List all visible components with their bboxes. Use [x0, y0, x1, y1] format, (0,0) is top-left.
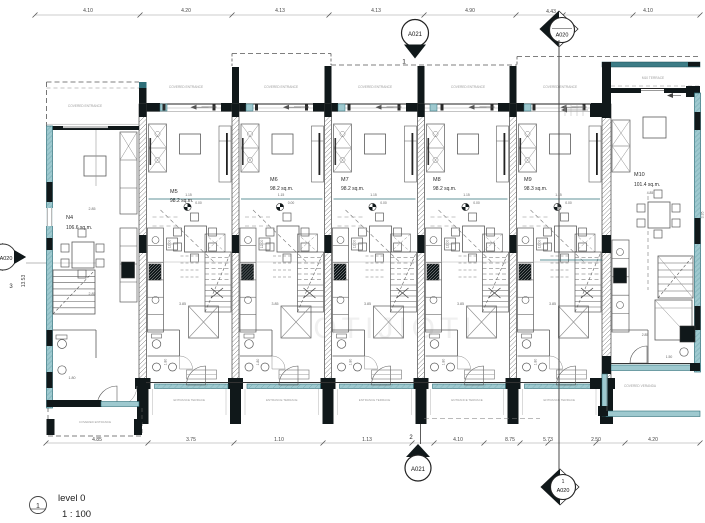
svg-text:1.15: 1.15 [463, 193, 470, 197]
svg-text:12.00: 12.00 [538, 240, 542, 249]
svg-text:2.85: 2.85 [642, 333, 649, 337]
unit M10 [416, 62, 705, 417]
party wall pillars at facade [139, 62, 611, 104]
svg-text:M7: M7 [341, 177, 349, 183]
svg-text:1.13: 1.13 [362, 437, 372, 443]
svg-text:COVERED ENTRANCE: COVERED ENTRANCE [451, 85, 485, 89]
svg-text:1.15: 1.15 [278, 193, 285, 197]
svg-text:COVERED ENTRANCE: COVERED ENTRANCE [358, 85, 392, 89]
svg-text:M9: M9 [524, 177, 532, 183]
svg-text:1.80: 1.80 [164, 359, 168, 366]
svg-text:4.85: 4.85 [92, 437, 102, 443]
svg-text:1.10: 1.10 [274, 437, 284, 443]
svg-text:4.43: 4.43 [546, 9, 556, 15]
svg-text:A021: A021 [411, 467, 426, 473]
dashed terrace edge [424, 418, 540, 420]
svg-text:OTIJIOTI: OTIJIOTI [313, 312, 476, 345]
svg-text:98.2 sq.m.: 98.2 sq.m. [433, 186, 456, 192]
svg-text:COVERED ENTRANCE: COVERED ENTRANCE [169, 85, 203, 89]
svg-text:12.00: 12.00 [168, 240, 172, 249]
left dimension 13.53 [21, 275, 27, 288]
svg-text:M5: M5 [170, 189, 178, 195]
svg-text:COVERED ENTRANCE: COVERED ENTRANCE [543, 85, 577, 89]
unit M9 [503, 104, 602, 415]
svg-text:2.85: 2.85 [89, 207, 96, 211]
svg-text:3.85: 3.85 [549, 302, 556, 306]
unit M4 [0, 82, 337, 436]
section marker A021 bottom [405, 435, 431, 481]
bottom dimension line [44, 437, 703, 446]
svg-text:98.2 sq.m.: 98.2 sq.m. [170, 198, 193, 204]
svg-text:98.2 sq.m.: 98.2 sq.m. [270, 186, 293, 192]
svg-text:M10 TERRACE: M10 TERRACE [642, 76, 664, 80]
svg-text:1.80: 1.80 [69, 376, 76, 380]
svg-text:1.80: 1.80 [256, 359, 260, 366]
title level 0 scale 1:100 [30, 493, 92, 520]
svg-text:3.85: 3.85 [272, 302, 279, 306]
svg-text:1 : 100: 1 : 100 [62, 509, 91, 520]
svg-text:0.00: 0.00 [288, 201, 295, 205]
svg-text:4.10: 4.10 [83, 8, 93, 14]
section marker A020 bottom [541, 469, 579, 505]
svg-text:COVERED ENTRANCE: COVERED ENTRANCE [79, 420, 111, 424]
unit M8 [411, 104, 510, 415]
svg-text:1: 1 [402, 59, 406, 66]
section line A021 overlay [420, 424, 422, 444]
svg-text:98.3 sq.m.: 98.3 sq.m. [524, 186, 547, 192]
svg-text:ENTRANCE TERRACE: ENTRANCE TERRACE [266, 398, 298, 402]
rear facade band [146, 383, 609, 403]
svg-text:1.80: 1.80 [442, 359, 446, 366]
svg-text:4.85: 4.85 [647, 191, 654, 195]
svg-text:A021: A021 [408, 32, 423, 38]
svg-text:4.10: 4.10 [643, 8, 653, 14]
svg-text:1.80: 1.80 [534, 359, 538, 366]
svg-text:1.80: 1.80 [349, 359, 353, 366]
svg-text:4.10: 4.10 [453, 437, 463, 443]
svg-text:M6: M6 [270, 177, 278, 183]
svg-text:3.85: 3.85 [364, 302, 371, 306]
M9 level line [540, 259, 602, 261]
unit M6 [226, 104, 325, 415]
svg-text:1.50: 1.50 [666, 355, 673, 359]
section marker A020 top [540, 11, 578, 47]
section line A020 [558, 40, 560, 470]
svg-text:3.85: 3.85 [457, 302, 464, 306]
svg-text:2.50: 2.50 [591, 437, 601, 443]
svg-text:1: 1 [562, 479, 565, 485]
roof dashed outline [232, 54, 700, 67]
svg-text:M10: M10 [634, 172, 645, 178]
svg-text:3.35: 3.35 [701, 212, 705, 219]
svg-text:level 0: level 0 [58, 493, 85, 504]
svg-text:ENTRANCE TERRACE: ENTRANCE TERRACE [359, 398, 391, 402]
svg-text:4.90: 4.90 [465, 8, 475, 14]
svg-text:0.00: 0.00 [565, 201, 572, 205]
svg-text:COVERED ENTRANCE: COVERED ENTRANCE [68, 104, 102, 108]
section line A020 overlay [558, 40, 560, 470]
svg-text:12.00: 12.00 [446, 240, 450, 249]
svg-text:0.00: 0.00 [473, 201, 480, 205]
svg-text:98.2 sq.m.: 98.2 sq.m. [341, 186, 364, 192]
svg-text:106.6 sq.m.: 106.6 sq.m. [66, 225, 92, 231]
svg-text:ENTRANCE TERRACE: ENTRANCE TERRACE [451, 398, 483, 402]
M9 rear corner wall [590, 378, 604, 389]
front facade band [139, 85, 611, 112]
svg-text:4.13: 4.13 [275, 8, 285, 14]
svg-text:A020: A020 [557, 488, 570, 494]
svg-text:A020: A020 [0, 256, 12, 262]
svg-text:0.00: 0.00 [380, 201, 387, 205]
section line A021 [420, 392, 422, 444]
svg-text:3.85: 3.85 [179, 302, 186, 306]
svg-text:5.73: 5.73 [543, 437, 553, 443]
svg-text:1.15: 1.15 [185, 193, 192, 197]
svg-text:8.75: 8.75 [505, 437, 515, 443]
svg-text:101.4 sq.m.: 101.4 sq.m. [634, 182, 660, 188]
unit M5 [133, 104, 232, 415]
top dimension line [33, 8, 703, 18]
svg-text:M8: M8 [433, 177, 441, 183]
svg-text:COVERED VERANDA: COVERED VERANDA [624, 384, 657, 388]
svg-text:4.13: 4.13 [371, 8, 381, 14]
section marker left [0, 243, 47, 290]
svg-text:N4: N4 [66, 215, 73, 221]
svg-text:4.20: 4.20 [181, 8, 191, 14]
svg-text:ENTRANCE TERRACE: ENTRANCE TERRACE [173, 398, 205, 402]
svg-text:12.00: 12.00 [260, 240, 264, 249]
svg-text:COVERED ENTRANCE: COVERED ENTRANCE [264, 85, 298, 89]
section marker A021 top [402, 20, 429, 66]
svg-text:3.75: 3.75 [186, 437, 196, 443]
svg-text:13.53: 13.53 [21, 275, 27, 288]
svg-text:12.00: 12.00 [353, 240, 357, 249]
svg-text:1.15: 1.15 [370, 193, 377, 197]
interior party walls [0, 104, 705, 424]
unit M7 [318, 104, 418, 415]
svg-text:4.20: 4.20 [648, 437, 658, 443]
svg-text:0.00: 0.00 [195, 201, 202, 205]
svg-text:A020: A020 [556, 33, 569, 39]
